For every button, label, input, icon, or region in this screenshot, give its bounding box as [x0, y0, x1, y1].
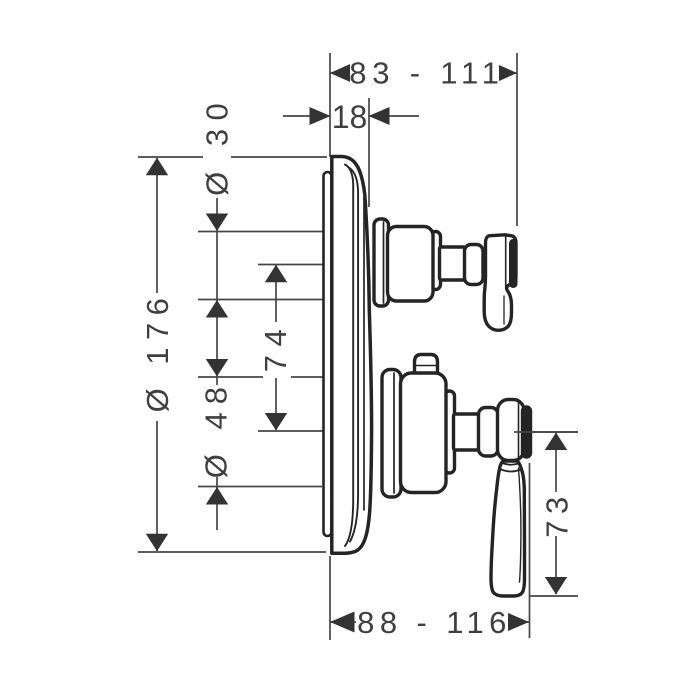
svg-text:83 - 111: 83 - 111 — [349, 56, 505, 91]
svg-text:74: 74 — [258, 321, 293, 372]
svg-text:Ø 48: Ø 48 — [199, 379, 234, 478]
svg-text:88 - 116: 88 - 116 — [357, 605, 512, 640]
svg-text:Ø 176: Ø 176 — [140, 291, 175, 413]
svg-text:Ø 30: Ø 30 — [200, 95, 235, 196]
svg-text:18: 18 — [332, 99, 368, 135]
svg-text:73: 73 — [540, 490, 575, 537]
